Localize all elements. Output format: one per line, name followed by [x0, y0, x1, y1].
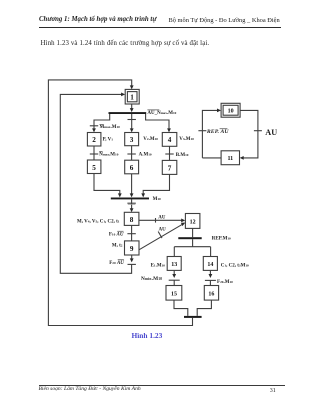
svg-text:12: 12 — [190, 219, 196, 225]
svg-text:16: 16 — [208, 291, 214, 297]
svg-text:AU: AU — [159, 227, 167, 232]
svg-text:M, t2: M, t2 — [112, 244, 123, 249]
svg-text:REP.M10: REP.M10 — [212, 237, 231, 242]
svg-text:C1, C2, t3M10: C1, C2, t3M10 — [221, 263, 249, 268]
svg-text:11: 11 — [227, 156, 233, 162]
svg-text:14: 14 — [207, 262, 213, 268]
svg-text:REP. AU: REP. AU — [206, 129, 229, 135]
svg-text:F20.M10: F20.M10 — [217, 280, 233, 285]
svg-text:F10 AU: F10 AU — [109, 233, 124, 238]
svg-text:13: 13 — [171, 262, 177, 268]
svg-text:1: 1 — [130, 93, 134, 101]
svg-text:Nmin.M10: Nmin.M10 — [141, 276, 162, 282]
svg-text:A.M10: A.M10 — [139, 153, 152, 158]
svg-text:M, V4, V5, C1, C2, t1: M, V4, V5, C1, C2, t1 — [77, 220, 120, 225]
svg-text:2: 2 — [92, 136, 96, 144]
svg-text:6: 6 — [130, 164, 134, 172]
svg-text:AU: AU — [158, 215, 166, 220]
svg-text:5: 5 — [92, 164, 96, 172]
svg-text:P, V1: P, V1 — [103, 137, 114, 142]
svg-text:F20 AU: F20 AU — [109, 261, 124, 266]
svg-text:8: 8 — [130, 216, 134, 224]
svg-text:E1.M10: E1.M10 — [151, 264, 166, 269]
svg-text:V2.M10: V2.M10 — [143, 137, 158, 142]
svg-text:AU_Nmax.M10: AU_Nmax.M10 — [147, 111, 176, 116]
svg-text:7: 7 — [168, 164, 172, 172]
svg-text:3: 3 — [130, 136, 134, 144]
svg-text:Nmax.M10: Nmax.M10 — [99, 152, 119, 157]
svg-text:4: 4 — [168, 136, 172, 144]
svg-text:Mmax.M10: Mmax.M10 — [100, 125, 121, 130]
svg-text:15: 15 — [171, 291, 177, 297]
svg-text:B.M10: B.M10 — [176, 153, 189, 158]
svg-text:V3.M10: V3.M10 — [179, 137, 194, 142]
svg-text:M10: M10 — [153, 197, 161, 202]
svg-text:10: 10 — [228, 109, 234, 115]
svg-text:AU: AU — [265, 128, 277, 137]
svg-text:9: 9 — [130, 245, 134, 253]
